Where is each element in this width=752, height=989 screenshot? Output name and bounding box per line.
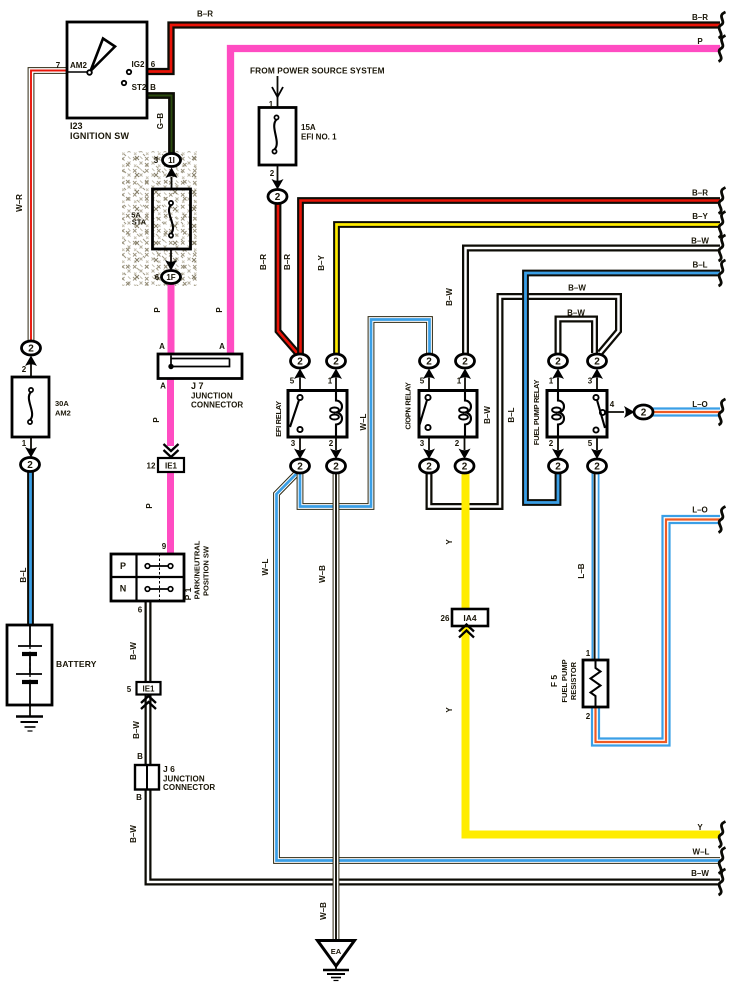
svg-text:PARK/NEUTRAL: PARK/NEUTRAL (193, 540, 202, 599)
svg-text:AM2: AM2 (55, 409, 71, 418)
svg-text:B: B (136, 793, 142, 802)
svg-text:P: P (152, 417, 161, 423)
svg-text:4: 4 (610, 400, 615, 409)
svg-text:30A: 30A (55, 399, 69, 408)
svg-text:P 1: P 1 (183, 587, 193, 600)
svg-text:IE1: IE1 (142, 685, 155, 694)
svg-text:2: 2 (455, 439, 460, 448)
svg-text:IE1: IE1 (165, 462, 178, 471)
svg-text:B–L: B–L (507, 407, 516, 422)
svg-text:12: 12 (147, 462, 156, 471)
svg-text:POSITION SW: POSITION SW (202, 545, 211, 596)
svg-text:JUNCTION: JUNCTION (191, 392, 233, 401)
svg-text:FUEL PUMP RELAY: FUEL PUMP RELAY (532, 380, 541, 446)
svg-text:IA4: IA4 (463, 613, 477, 623)
svg-text:2: 2 (333, 357, 339, 368)
svg-text:B–L: B–L (692, 261, 707, 270)
svg-text:IGNITION SW: IGNITION SW (70, 131, 130, 141)
svg-text:5: 5 (290, 377, 295, 386)
svg-text:B–R: B–R (197, 10, 213, 19)
svg-text:6: 6 (155, 273, 160, 282)
svg-text:2: 2 (462, 357, 468, 368)
svg-text:W–B: W–B (319, 902, 328, 920)
svg-text:2: 2 (426, 357, 432, 368)
svg-text:B: B (150, 83, 156, 92)
svg-text:I23: I23 (70, 121, 83, 131)
svg-text:P: P (120, 561, 126, 571)
svg-text:L–B: L–B (577, 563, 586, 578)
svg-text:G–B: G–B (156, 113, 165, 130)
svg-text:EA: EA (331, 947, 342, 956)
svg-text:B–W: B–W (445, 288, 454, 306)
svg-text:3: 3 (291, 439, 296, 448)
svg-text:B–R: B–R (692, 189, 708, 198)
svg-text:P: P (153, 307, 162, 313)
svg-text:5: 5 (127, 685, 132, 694)
svg-text:STA: STA (132, 218, 147, 227)
svg-text:2: 2 (549, 439, 554, 448)
svg-text:1: 1 (269, 100, 274, 109)
svg-text:C/OPN RELAY: C/OPN RELAY (404, 382, 413, 430)
svg-text:P: P (145, 503, 154, 509)
svg-text:6: 6 (138, 606, 143, 615)
svg-text:A: A (219, 342, 225, 351)
svg-text:3: 3 (154, 156, 159, 165)
svg-text:2: 2 (28, 344, 34, 355)
svg-text:RESISTOR: RESISTOR (569, 661, 578, 700)
svg-text:B–R: B–R (692, 13, 708, 22)
svg-text:26: 26 (441, 614, 450, 623)
svg-text:BATTERY: BATTERY (56, 659, 97, 669)
svg-text:F 5: F 5 (549, 675, 559, 688)
svg-text:1: 1 (328, 377, 333, 386)
svg-text:2: 2 (270, 169, 275, 178)
svg-text:W–L: W–L (261, 558, 270, 575)
svg-text:2: 2 (297, 462, 303, 473)
svg-text:B–W: B–W (132, 721, 141, 739)
svg-text:2: 2 (27, 460, 33, 471)
svg-text:B–L: B–L (19, 567, 28, 582)
svg-text:6: 6 (151, 60, 156, 69)
svg-text:A: A (159, 342, 165, 351)
svg-text:Y: Y (445, 707, 454, 713)
svg-text:2: 2 (555, 462, 561, 473)
svg-text:2: 2 (22, 365, 27, 374)
svg-text:B–Y: B–Y (317, 255, 326, 271)
svg-text:5: 5 (588, 439, 593, 448)
svg-text:ST2: ST2 (132, 83, 147, 92)
svg-text:3: 3 (420, 439, 425, 448)
svg-text:Y: Y (697, 823, 703, 832)
svg-text:B–R: B–R (259, 254, 268, 270)
svg-text:2: 2 (275, 192, 281, 203)
svg-text:2: 2 (555, 357, 561, 368)
svg-text:1: 1 (457, 377, 462, 386)
svg-text:9: 9 (162, 542, 167, 551)
svg-text:B: B (137, 752, 143, 761)
svg-text:B–W: B–W (691, 237, 709, 246)
svg-text:AM2: AM2 (70, 61, 87, 70)
svg-text:1F: 1F (166, 273, 175, 282)
svg-text:W–R: W–R (15, 194, 24, 212)
svg-text:P: P (215, 307, 224, 313)
svg-text:FUEL PUMP: FUEL PUMP (560, 659, 569, 702)
svg-text:B–W: B–W (483, 406, 492, 424)
svg-text:1: 1 (586, 649, 591, 658)
svg-text:2: 2 (641, 408, 647, 419)
svg-text:J 7: J 7 (191, 381, 204, 391)
svg-text:P: P (697, 37, 703, 46)
svg-text:N: N (120, 584, 127, 594)
svg-text:2: 2 (333, 462, 339, 473)
svg-text:W–B: W–B (318, 565, 327, 583)
svg-text:L–O: L–O (692, 506, 708, 515)
svg-text:B–W: B–W (567, 309, 585, 318)
svg-text:CONNECTOR: CONNECTOR (163, 783, 215, 792)
svg-text:1: 1 (549, 377, 554, 386)
svg-text:B–W: B–W (129, 825, 138, 843)
svg-text:15A: 15A (301, 123, 316, 132)
svg-text:L–O: L–O (692, 400, 708, 409)
svg-text:IG2: IG2 (132, 60, 145, 69)
svg-text:B–W: B–W (129, 642, 138, 660)
svg-text:2: 2 (594, 462, 600, 473)
svg-text:CONNECTOR: CONNECTOR (191, 401, 243, 410)
svg-text:FROM POWER SOURCE SYSTEM: FROM POWER SOURCE SYSTEM (250, 66, 385, 76)
svg-text:2: 2 (586, 712, 591, 721)
svg-text:B–R: B–R (283, 254, 292, 270)
svg-text:2: 2 (426, 462, 432, 473)
svg-text:EFI RELAY: EFI RELAY (274, 401, 283, 437)
svg-text:J 6: J 6 (163, 764, 175, 774)
svg-text:W–L: W–L (693, 848, 710, 857)
svg-text:2: 2 (297, 357, 303, 368)
svg-text:W–L: W–L (359, 413, 368, 430)
svg-text:Y: Y (445, 539, 454, 545)
svg-text:2: 2 (462, 462, 468, 473)
svg-text:3: 3 (588, 377, 593, 386)
svg-text:B–Y: B–Y (692, 212, 708, 221)
svg-text:1I: 1I (168, 156, 175, 165)
svg-text:7: 7 (56, 61, 61, 70)
svg-text:5: 5 (420, 377, 425, 386)
svg-text:A: A (160, 382, 166, 391)
svg-text:1: 1 (22, 439, 27, 448)
svg-text:B–W: B–W (568, 284, 586, 293)
svg-text:B–W: B–W (691, 869, 709, 878)
svg-text:2: 2 (329, 439, 334, 448)
svg-text:EFI NO. 1: EFI NO. 1 (301, 133, 337, 142)
svg-text:2: 2 (594, 357, 600, 368)
